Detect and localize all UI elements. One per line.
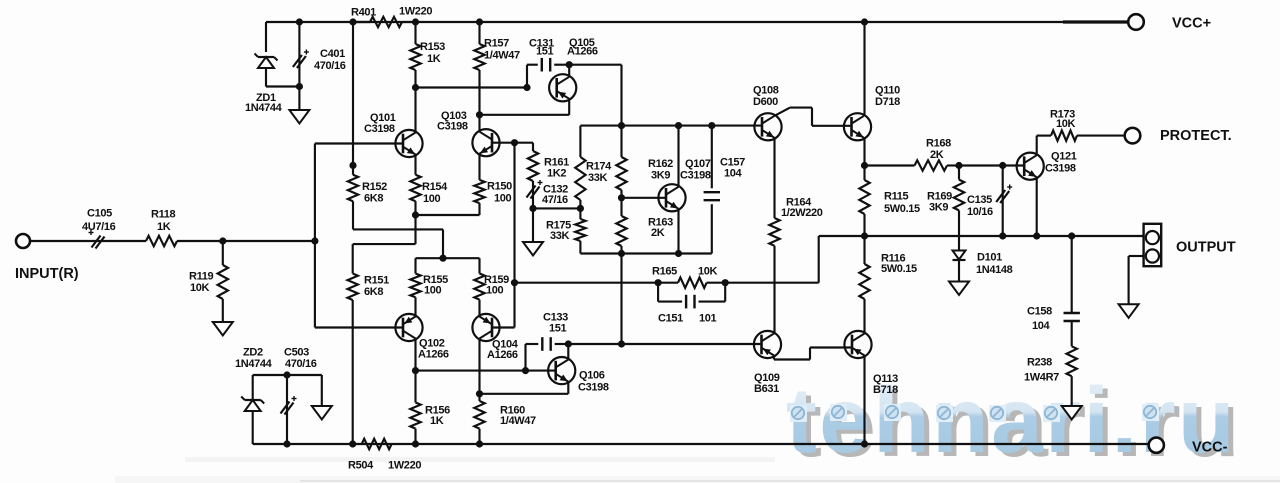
label R169: [927, 191, 952, 214]
capacitor C401: [293, 22, 309, 87]
wire input: [30, 240, 146, 242]
wire Q104 collector: [478, 339, 480, 394]
svg-text:A1266: A1266: [487, 349, 518, 361]
resistor R159: [474, 258, 484, 316]
label VCC+: [1172, 16, 1211, 32]
wire R168 to Q121: [959, 164, 1024, 166]
node Q104 collector: [476, 390, 483, 397]
label Q107: [680, 158, 711, 182]
svg-text:C158: C158: [1027, 306, 1052, 318]
svg-text:C3198: C3198: [1045, 162, 1076, 174]
svg-text:1W4R7: 1W4R7: [1024, 372, 1059, 384]
transistor Q103: [472, 129, 499, 156]
resistor R157: [474, 22, 484, 115]
node C133 tap: [522, 367, 529, 374]
svg-text:R118: R118: [151, 209, 176, 221]
label R153: [420, 41, 445, 65]
capacitor C132: [527, 180, 543, 208]
resistor R174: [575, 126, 585, 209]
resistor R152: [348, 22, 358, 229]
node R153 bottom: [412, 84, 419, 91]
capacitor C133: [526, 337, 569, 370]
svg-text:100: 100: [424, 285, 442, 297]
wire Q102 base: [315, 326, 404, 328]
svg-text:10K: 10K: [1056, 118, 1076, 130]
svg-text:10/16: 10/16: [967, 206, 993, 218]
wire VAS top line: [580, 125, 762, 127]
ground ZD2 block: [312, 375, 332, 420]
label R174: [586, 161, 612, 185]
wire VCC- rail: [253, 443, 1149, 445]
node R174 bottom: [577, 205, 584, 212]
wire tail2: [416, 257, 480, 259]
node VAS top C157: [708, 122, 715, 129]
label R238: [1024, 357, 1059, 384]
wire Q121 emitter: [1036, 177, 1038, 236]
label C503: [284, 347, 317, 370]
svg-text:C401: C401: [320, 48, 345, 60]
label C132: [542, 184, 568, 207]
capacitor C105: [89, 230, 105, 249]
node R157 top: [476, 18, 483, 25]
wire Q101 collector: [414, 88, 416, 133]
label Q101: [364, 112, 396, 135]
svg-text:1N4744: 1N4744: [245, 102, 283, 114]
svg-text:2K: 2K: [651, 227, 665, 239]
label ZD1: [245, 92, 283, 114]
wire Q108 emitter: [773, 138, 775, 218]
terminal VCC-: [1149, 438, 1164, 453]
capacitor C157: [704, 126, 720, 254]
wire C132 to R174: [533, 207, 580, 209]
node R401 left: [349, 18, 356, 25]
wire VCC+ rail: [266, 21, 1128, 23]
transistor Q109: [754, 331, 781, 358]
svg-text:C3198: C3198: [680, 170, 711, 182]
svg-text:R168: R168: [926, 138, 951, 150]
wire input to pair: [223, 240, 315, 242]
wire Q110 collector: [863, 22, 865, 116]
label C158: [1027, 306, 1052, 333]
svg-text:OUTPUT: OUTPUT: [1176, 240, 1236, 256]
wire Q109 emitter: [774, 348, 852, 360]
node Q121 emitter: [1033, 232, 1040, 239]
node R156 rail: [412, 440, 419, 447]
wire R153 to Q105 base: [416, 86, 528, 88]
node Q102 collector: [412, 367, 419, 374]
label R150: [487, 181, 512, 205]
svg-text:1W220: 1W220: [388, 460, 421, 472]
capacitor C131: [542, 58, 550, 72]
wire Q101 base: [315, 142, 404, 144]
svg-text:1/2W220: 1/2W220: [781, 207, 823, 219]
resistor R169: [954, 166, 964, 237]
svg-text:10K: 10K: [698, 266, 718, 278]
label OUTPUT: [1176, 240, 1236, 256]
node R152 top: [349, 162, 356, 169]
label R175: [546, 220, 571, 243]
svg-text:470/16: 470/16: [285, 358, 317, 370]
node R157 bottom: [476, 111, 483, 118]
wire R152 to tail2: [353, 229, 443, 258]
svg-text:R115: R115: [884, 191, 909, 203]
svg-text:3K9: 3K9: [929, 202, 948, 214]
svg-text:R165: R165: [652, 266, 677, 278]
node C158 top: [1068, 232, 1075, 239]
label R157: [484, 38, 520, 62]
wire VAS bottom line: [580, 252, 711, 254]
resistor R164: [769, 218, 779, 333]
label R119: [189, 271, 214, 295]
svg-text:D101: D101: [977, 252, 1002, 264]
svg-text:1/4W47: 1/4W47: [484, 50, 520, 62]
label Q108: [753, 85, 779, 108]
resistor R238: [1067, 346, 1077, 406]
wire output line: [819, 235, 1144, 237]
wire Q110 emitter: [863, 138, 865, 166]
node R165 right: [722, 279, 729, 286]
transistor Q113: [844, 331, 871, 358]
svg-text:C3198: C3198: [437, 121, 468, 133]
node base column: [311, 237, 318, 244]
svg-text:D600: D600: [753, 96, 778, 108]
label C135: [967, 194, 993, 218]
transistor Q105: [549, 74, 576, 101]
svg-text:A1266: A1266: [567, 46, 598, 58]
wire Q105 emitter: [480, 99, 570, 115]
label C131: [529, 37, 554, 57]
resistor R161: [515, 143, 539, 184]
label R115: [884, 191, 920, 216]
node R168 right: [955, 162, 962, 169]
svg-text:1N4148: 1N4148: [976, 264, 1013, 276]
svg-text:R119: R119: [189, 271, 214, 283]
node R160 rail: [476, 440, 483, 447]
label D101: [976, 252, 1013, 277]
wire Q113 collector: [863, 299, 865, 334]
svg-text:INPUT(R): INPUT(R): [15, 266, 79, 282]
label C157: [720, 157, 745, 180]
resistor R165: [658, 278, 725, 288]
wire Q106 base line: [416, 370, 556, 372]
wire feedback column: [493, 143, 515, 328]
resistor R173: [1051, 130, 1125, 140]
svg-text:10K: 10K: [190, 282, 210, 294]
svg-text:151: 151: [536, 46, 554, 58]
zener ZD2: [241, 375, 264, 444]
wire C131 right: [554, 64, 569, 66]
capacitor C158: [1064, 236, 1080, 346]
label Q103: [437, 110, 468, 133]
svg-text:C105: C105: [87, 208, 112, 220]
transistor Q121: [1017, 153, 1044, 180]
node input junction: [219, 237, 226, 244]
node feedback: [511, 279, 518, 286]
label R154: [422, 181, 448, 205]
label R160: [500, 405, 536, 428]
wire Q113 emitter: [863, 356, 865, 445]
capacitor C503: [281, 375, 297, 444]
resistor R115: [859, 166, 869, 237]
transistor Q110: [844, 113, 871, 140]
label R165: [652, 266, 718, 278]
transistor Q107: [658, 184, 685, 211]
svg-text:R151: R151: [364, 275, 389, 287]
node Q113 emitter: [861, 440, 868, 447]
label R156: [425, 405, 450, 428]
label C401: [314, 48, 346, 72]
svg-text:R152: R152: [362, 181, 387, 193]
svg-text:2K: 2K: [930, 149, 944, 161]
wire Q105c to VAS: [569, 65, 621, 126]
svg-text:R162: R162: [648, 158, 673, 170]
node C401 bottom: [296, 83, 303, 90]
svg-text:1N4744: 1N4744: [235, 358, 273, 370]
label Q113: [873, 373, 898, 396]
wire Q103 collector: [478, 115, 480, 132]
transistor Q102: [395, 314, 422, 341]
label R161: [544, 157, 569, 180]
resistor R504: [362, 439, 392, 449]
wire Q107 emitter: [677, 209, 679, 254]
wire feedback to pair: [515, 282, 659, 284]
label R168: [926, 138, 951, 162]
transistor Q101: [395, 130, 422, 157]
svg-text:Q110: Q110: [875, 85, 900, 97]
resistor R153: [410, 22, 420, 88]
resistor R160: [474, 394, 484, 444]
svg-text:1K: 1K: [430, 415, 444, 427]
label R164: [781, 197, 823, 220]
label Q102: [418, 338, 449, 361]
svg-text:47/16: 47/16: [542, 194, 568, 206]
node Q103 base: [511, 139, 518, 146]
svg-text:ZD2: ZD2: [243, 347, 263, 359]
node tail1: [412, 211, 419, 218]
svg-text:101: 101: [699, 313, 717, 325]
svg-text:R504: R504: [348, 460, 374, 472]
label INPUT(R): [15, 266, 79, 282]
svg-text:33K: 33K: [588, 172, 608, 184]
svg-text:1/4W47: 1/4W47: [500, 415, 536, 427]
wire Q107 collector: [677, 126, 679, 187]
svg-text:D718: D718: [875, 96, 900, 108]
svg-text:VCC+: VCC+: [1172, 16, 1211, 32]
node C401 top: [296, 18, 303, 25]
resistor R119: [218, 241, 228, 322]
wire Q108 collector: [775, 108, 852, 126]
node VAS top Q107: [675, 122, 682, 129]
label VCC-: [1192, 440, 1228, 456]
wire tail1: [416, 203, 480, 215]
resistor R151: [348, 244, 358, 444]
wire Q107 base: [622, 197, 667, 199]
wire tail1 to R151: [353, 215, 416, 244]
label Q104: [487, 339, 519, 362]
wire ZD1 branch: [265, 22, 267, 52]
transistor Q108: [754, 113, 781, 140]
wire ZD2 top line: [253, 374, 322, 376]
node Q106 collector: [565, 340, 572, 347]
wire Q102 collector: [414, 339, 416, 371]
diode D101: [953, 236, 966, 282]
label R116: [881, 253, 917, 276]
svg-text:5W0.15: 5W0.15: [881, 263, 917, 275]
svg-text:PROTECT.: PROTECT.: [1160, 128, 1232, 144]
svg-text:1K: 1K: [157, 221, 171, 233]
node VAS bottom Q107: [675, 250, 682, 257]
label R155: [423, 274, 448, 297]
ground C401: [289, 87, 309, 124]
wire Q106 emitter: [480, 382, 569, 394]
svg-text:1K2: 1K2: [547, 168, 566, 180]
label R151: [364, 275, 389, 299]
terminal PROTECT: [1125, 128, 1141, 144]
resistor R118: [146, 236, 223, 246]
zener ZD1: [255, 54, 278, 87]
label R163: [648, 217, 673, 240]
svg-text:R238: R238: [1027, 357, 1052, 369]
label C151: [658, 313, 717, 325]
svg-text:R150: R150: [487, 181, 512, 193]
svg-text:Q121: Q121: [1051, 151, 1077, 163]
svg-text:470/16: 470/16: [314, 60, 346, 72]
wire Q105 collector: [568, 65, 570, 77]
node Q105 base: [523, 84, 530, 91]
terminal INPUT: [16, 234, 30, 248]
ground R119: [213, 322, 233, 336]
wire ZD1-C401 bottom: [266, 85, 299, 87]
label Q109: [754, 372, 780, 395]
resistor R154: [410, 155, 420, 216]
label C105: [82, 208, 116, 233]
wire connector ground: [1129, 256, 1144, 304]
ground R238: [1062, 406, 1082, 420]
node Q105 collector: [566, 61, 573, 68]
transistor Q106: [548, 357, 575, 384]
label R159: [484, 274, 509, 297]
resistor R401: [353, 17, 416, 27]
svg-text:100: 100: [423, 193, 441, 205]
svg-text:C3198: C3198: [364, 123, 395, 135]
svg-text:33K: 33K: [550, 230, 570, 242]
svg-text:5W0.15: 5W0.15: [884, 203, 920, 215]
svg-text:6K8: 6K8: [364, 192, 383, 204]
svg-text:104: 104: [1032, 320, 1051, 332]
label Q121: [1045, 151, 1077, 175]
node VAS top R162: [618, 122, 625, 129]
svg-text:A1266: A1266: [418, 349, 449, 361]
wire Q106 collector: [567, 344, 569, 360]
resistor R150: [474, 155, 484, 204]
wire driver base line: [568, 343, 761, 345]
label Q105: [567, 37, 598, 58]
terminal VCC+: [1128, 14, 1144, 30]
node C135 bottom: [999, 232, 1006, 239]
svg-text:100: 100: [494, 192, 512, 204]
label Q106: [578, 370, 609, 394]
node Q110 collector: [861, 18, 868, 25]
svg-text:C3198: C3198: [578, 382, 609, 394]
resistor R162: [616, 126, 626, 198]
svg-text:100: 100: [486, 285, 504, 297]
svg-text:Q107: Q107: [685, 158, 711, 170]
label R162: [648, 158, 673, 182]
svg-text:1W220: 1W220: [399, 6, 432, 18]
connector OUTPUT: [1144, 224, 1162, 266]
node R165 left: [655, 279, 662, 286]
label R504: [348, 460, 421, 472]
capacitor C151: [658, 283, 725, 309]
transistor Q104: [472, 314, 499, 341]
ground connector: [1119, 304, 1139, 318]
wire Q103 base: [493, 142, 515, 144]
node output R115: [861, 232, 868, 239]
svg-text:R154: R154: [422, 181, 448, 193]
svg-text:6K8: 6K8: [364, 286, 383, 298]
svg-text:151: 151: [549, 323, 567, 335]
label C133: [543, 312, 568, 335]
node tail2: [439, 255, 446, 262]
label Q110: [875, 85, 900, 108]
label R173: [1050, 109, 1076, 131]
wire base column: [314, 144, 316, 328]
svg-text:B631: B631: [754, 383, 779, 395]
label R401: [351, 6, 432, 19]
wire R163 to driver base: [620, 254, 622, 345]
node Q107 base: [618, 194, 625, 201]
svg-text:R157: R157: [484, 38, 509, 50]
node driver base line: [618, 340, 625, 347]
resistor R116: [859, 236, 869, 299]
node R151 rail: [349, 440, 356, 447]
resistor R163: [616, 198, 626, 254]
svg-text:3K9: 3K9: [651, 170, 670, 182]
svg-text:104: 104: [724, 168, 743, 180]
node C132 bottom: [529, 205, 536, 212]
resistor R156: [410, 371, 420, 444]
svg-text:Q108: Q108: [753, 85, 779, 97]
watermark bottom strip: [115, 457, 1280, 483]
ground C132: [523, 208, 543, 255]
label R152: [362, 181, 387, 204]
resistor R175: [575, 208, 585, 253]
svg-text:R153: R153: [420, 41, 445, 53]
wire Q121 collector: [1037, 136, 1051, 156]
svg-text:1K: 1K: [427, 53, 441, 65]
resistor R168: [865, 160, 960, 170]
svg-text:C503: C503: [284, 347, 309, 359]
node C135 top: [999, 162, 1006, 169]
node Q110 emitter: [861, 162, 868, 169]
svg-text:tehnari.ru: tehnari.ru: [786, 368, 1237, 472]
node C503 bottom: [283, 440, 290, 447]
svg-text:Q106: Q106: [579, 370, 605, 382]
node VAS bottom R163: [618, 250, 625, 257]
node R401 right: [412, 18, 419, 25]
svg-text:4U7/16: 4U7/16: [82, 221, 116, 233]
node ZD2 top line: [283, 371, 290, 378]
label PROTECT.: [1160, 128, 1232, 144]
resistor R155: [410, 258, 420, 316]
watermark tehnari.ru: [786, 368, 1242, 476]
wire C131 riser: [527, 65, 538, 88]
svg-text:B718: B718: [873, 384, 898, 396]
svg-text:R401: R401: [351, 7, 376, 19]
wire feedback drop: [725, 236, 819, 283]
label ZD2: [235, 347, 273, 370]
svg-text:C151: C151: [658, 313, 683, 325]
